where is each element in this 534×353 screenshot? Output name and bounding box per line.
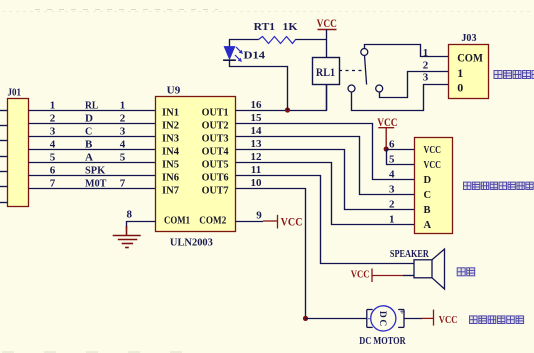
wire D14 anode to RT1 xyxy=(230,40,259,47)
svg-text:M0T: M0T xyxy=(85,177,107,189)
svg-text:IN2: IN2 xyxy=(162,121,179,132)
wire COM2 pin 9 to VCC xyxy=(236,221,264,223)
wire RT1 to VCC rail xyxy=(295,39,326,41)
wire relay NC to J03 pin 3 xyxy=(352,85,449,111)
svg-text:B: B xyxy=(424,205,431,216)
svg-text:C: C xyxy=(377,319,387,326)
speaker LS1 xyxy=(414,249,445,289)
svg-text:10: 10 xyxy=(251,177,263,189)
svg-text:12: 12 xyxy=(251,151,263,163)
relay contact arm xyxy=(365,56,367,85)
wire OUT6 to speaker xyxy=(236,176,415,264)
faint bottom edge marks xyxy=(2,351,200,353)
svg-text:4: 4 xyxy=(50,138,56,150)
relay contact NC xyxy=(348,85,355,92)
power VCC stepper xyxy=(378,128,394,149)
svg-text:SPEAKER: SPEAKER xyxy=(390,249,430,260)
svg-text:16: 16 xyxy=(251,99,263,111)
svg-text:IN3: IN3 xyxy=(162,134,179,145)
wire net A OUT5 to stepper pin 1 xyxy=(236,163,415,225)
svg-text:OUT1: OUT1 xyxy=(202,108,229,119)
svg-text:2: 2 xyxy=(120,112,126,124)
wire COM1 pin 8 to ground xyxy=(127,222,156,229)
svg-text:1: 1 xyxy=(457,66,463,80)
svg-text:1: 1 xyxy=(423,47,429,59)
svg-text:4: 4 xyxy=(120,138,126,150)
svg-text:4: 4 xyxy=(389,168,395,180)
wire net D OUT2 to stepper pin 4 xyxy=(236,124,415,180)
svg-text:VCC: VCC xyxy=(317,16,337,30)
svg-text:J03: J03 xyxy=(461,33,476,44)
wire net C OUT3 to stepper pin 3 xyxy=(236,137,415,195)
svg-text:OUT3: OUT3 xyxy=(202,134,229,145)
svg-text:3: 3 xyxy=(389,183,395,195)
svg-text:3: 3 xyxy=(120,125,126,137)
svg-text:13: 13 xyxy=(251,138,263,150)
wire net M0T (J01 pin 7 to U9 IN7) xyxy=(29,188,156,190)
power VCC at COM2 xyxy=(263,215,278,229)
wire VCC to RL1 coil xyxy=(326,30,328,58)
svg-text:9: 9 xyxy=(256,210,262,222)
svg-text:6: 6 xyxy=(389,138,395,150)
label horn (Chinese) xyxy=(457,268,475,276)
IC U9 ULN2003 body xyxy=(156,97,236,232)
wire VCC to speaker pin xyxy=(403,275,414,277)
svg-text:+: + xyxy=(400,308,405,317)
power VCC speaker xyxy=(372,269,403,283)
svg-text:11: 11 xyxy=(251,164,261,176)
J01 left pin stubs xyxy=(0,111,8,203)
LED D14 xyxy=(223,46,243,62)
svg-text:OUT2: OUT2 xyxy=(202,121,229,132)
svg-text:1K: 1K xyxy=(283,21,298,33)
wire OUT1 pin 16 to relay coil xyxy=(236,85,327,111)
svg-text:B: B xyxy=(85,138,93,150)
svg-text:1: 1 xyxy=(389,213,395,225)
relay linkage dashed xyxy=(339,70,364,72)
connector J03 xyxy=(449,45,489,99)
svg-text:VCC: VCC xyxy=(351,269,370,281)
label stepper driver interface (Chinese) xyxy=(464,182,534,189)
svg-text:2: 2 xyxy=(50,112,56,124)
svg-text:7: 7 xyxy=(120,177,126,189)
svg-text:8: 8 xyxy=(127,209,133,221)
svg-text:DC MOTOR: DC MOTOR xyxy=(359,336,406,347)
svg-text:5: 5 xyxy=(389,153,395,165)
resistor RT1 xyxy=(259,37,296,44)
wire net SPK (J01 pin 6 to U9 IN6) xyxy=(29,175,156,177)
junction node stepper VCC xyxy=(384,146,389,151)
relay contact NO xyxy=(376,85,383,92)
svg-text:VCC: VCC xyxy=(424,160,442,171)
wire relay common to J03 pin 1 xyxy=(365,45,449,57)
svg-text:IN1: IN1 xyxy=(162,108,179,119)
svg-text:15: 15 xyxy=(251,112,263,124)
svg-text:1: 1 xyxy=(50,99,56,111)
svg-text:14: 14 xyxy=(251,125,263,137)
svg-text:-: - xyxy=(367,314,370,323)
faint top edge marks xyxy=(2,11,530,13)
svg-text:1: 1 xyxy=(120,99,126,111)
wire VCC to stepper pin 5 xyxy=(387,150,415,165)
svg-text:D: D xyxy=(85,112,93,124)
power VCC motor xyxy=(422,310,434,326)
svg-text:VCC: VCC xyxy=(439,314,458,326)
svg-text:U9: U9 xyxy=(167,85,181,97)
svg-text:6: 6 xyxy=(50,164,56,176)
svg-text:D14: D14 xyxy=(244,50,266,62)
wire net D (J01 pin 2 to U9 IN2) xyxy=(29,123,156,125)
svg-text:3: 3 xyxy=(423,72,429,84)
junction node OUT1/D14 xyxy=(285,107,290,112)
connector J01 xyxy=(8,99,29,207)
ground xyxy=(113,226,141,248)
DC motor M1 xyxy=(367,306,404,331)
svg-text:COM: COM xyxy=(457,51,483,65)
svg-text:VCC: VCC xyxy=(424,145,442,156)
svg-text:2: 2 xyxy=(389,198,395,210)
relay contact common xyxy=(361,49,368,56)
svg-text:COM2: COM2 xyxy=(199,216,226,227)
wire VCC to stepper pin 6 xyxy=(386,149,414,151)
svg-text:IN7: IN7 xyxy=(162,186,179,197)
svg-text:VCC: VCC xyxy=(281,214,303,228)
wire RL1 coil to OUT1 xyxy=(326,85,328,111)
svg-text:A: A xyxy=(424,220,432,231)
svg-text:ULN2003: ULN2003 xyxy=(170,236,213,248)
junction node motor xyxy=(303,316,308,321)
svg-text:OUT7: OUT7 xyxy=(202,186,229,197)
wire net C (J01 pin 3 to U9 IN3) xyxy=(29,136,156,138)
svg-text:A: A xyxy=(85,151,93,163)
svg-text:J01: J01 xyxy=(8,88,22,99)
svg-text:IN4: IN4 xyxy=(162,147,179,158)
svg-text:0: 0 xyxy=(457,81,463,95)
wire D14 cathode branch xyxy=(230,61,288,111)
label relay interface (Chinese) xyxy=(494,71,534,79)
svg-text:VCC: VCC xyxy=(377,115,397,129)
svg-text:OUT6: OUT6 xyxy=(202,173,229,184)
svg-text:IN6: IN6 xyxy=(162,173,179,184)
wire relay NO to J03 pin 2 xyxy=(380,72,449,98)
svg-text:3: 3 xyxy=(50,125,56,137)
label DC motor interface (Chinese) xyxy=(470,316,524,324)
svg-text:C: C xyxy=(424,190,432,201)
svg-text:RT1: RT1 xyxy=(254,21,275,33)
svg-text:5: 5 xyxy=(50,151,56,163)
svg-text:RL: RL xyxy=(85,99,98,111)
svg-text:7: 7 xyxy=(50,177,56,189)
svg-text:OUT4: OUT4 xyxy=(202,147,229,158)
svg-text:C: C xyxy=(85,125,92,137)
wire to motor negative terminal xyxy=(306,318,367,320)
wire net B OUT4 to stepper pin 2 xyxy=(236,150,415,210)
svg-text:D: D xyxy=(424,175,432,186)
svg-text:OUT5: OUT5 xyxy=(202,160,229,171)
wire net A (J01 pin 5 to U9 IN5) xyxy=(29,162,156,164)
wire net B (J01 pin 4 to U9 IN4) xyxy=(29,149,156,151)
svg-text:D: D xyxy=(377,311,387,318)
svg-text:5: 5 xyxy=(120,151,126,163)
svg-text:2: 2 xyxy=(423,59,429,71)
connector stepper driver xyxy=(415,138,453,234)
power VCC top xyxy=(318,29,337,31)
wire net RL (J01 pin 1 to U9 IN1) xyxy=(29,110,156,112)
wire OUT7 to motor xyxy=(236,189,306,319)
svg-text:SPK: SPK xyxy=(85,164,106,176)
wire motor positive to VCC xyxy=(404,318,422,320)
svg-text:IN5: IN5 xyxy=(162,160,179,171)
svg-text:RL1: RL1 xyxy=(316,67,335,79)
relay coil RL1 xyxy=(313,58,340,85)
svg-text:COM1: COM1 xyxy=(164,216,190,227)
